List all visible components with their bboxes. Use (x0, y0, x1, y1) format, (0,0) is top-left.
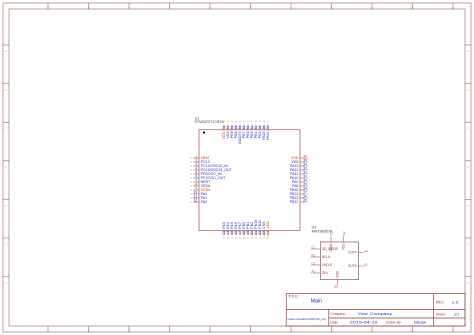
svg-text:40: 40 (254, 126, 258, 130)
svg-text:1.0: 1.0 (452, 300, 460, 305)
svg-text:10: 10 (193, 190, 197, 194)
svg-text:PA15: PA15 (262, 131, 266, 140)
svg-text:PA14: PA14 (266, 131, 270, 140)
svg-text:25: 25 (303, 198, 307, 202)
svg-text:OUTP: OUTP (348, 251, 357, 255)
svg-text:VSS: VSS (262, 221, 266, 229)
svg-text:22: 22 (258, 231, 262, 235)
svg-text:PA7: PA7 (238, 222, 242, 229)
svg-text:20: 20 (250, 231, 254, 235)
svg-text:2019-04-19: 2019-04-19 (350, 319, 379, 324)
svg-text:1: 1 (195, 154, 197, 158)
svg-text:13: 13 (222, 231, 226, 235)
svg-text:11: 11 (194, 194, 198, 198)
svg-text:9: 9 (195, 186, 197, 190)
svg-text:PB5: PB5 (250, 131, 254, 138)
svg-text:35: 35 (303, 158, 307, 162)
svg-text:1/1: 1/1 (454, 312, 460, 317)
svg-text:6: 6 (195, 174, 197, 178)
svg-text:43: 43 (242, 126, 246, 130)
svg-text:PA1: PA1 (201, 196, 208, 200)
svg-text:2: 2 (195, 158, 197, 162)
svg-text:32: 32 (303, 170, 307, 174)
svg-text:46: 46 (230, 126, 234, 130)
svg-text:PF1/OSC_OUT: PF1/OSC_OUT (201, 176, 227, 180)
svg-text:PC14/OSC32_IN: PC14/OSC32_IN (201, 164, 229, 168)
svg-text:BOOT0: BOOT0 (238, 131, 242, 143)
svg-text:7: 7 (195, 178, 197, 182)
svg-text:PA5: PA5 (230, 222, 234, 229)
svg-text:47: 47 (226, 126, 230, 130)
svg-text:PA6: PA6 (234, 222, 238, 229)
svg-text:PF0/OSC_IN: PF0/OSC_IN (201, 172, 222, 176)
svg-text:19: 19 (246, 231, 250, 235)
svg-text:37: 37 (266, 126, 270, 130)
svg-text:14: 14 (226, 231, 230, 235)
svg-text:24: 24 (266, 231, 270, 235)
svg-text:45: 45 (234, 126, 238, 130)
svg-text:VDD: VDD (342, 243, 346, 250)
svg-text:12: 12 (193, 198, 197, 202)
svg-text:23: 23 (262, 231, 266, 235)
svg-text:4: 4 (195, 166, 197, 170)
svg-text:G: G (5, 283, 7, 285)
svg-text:44: 44 (238, 126, 242, 130)
svg-text:TITLE:: TITLE: (288, 295, 299, 299)
svg-text:PB8: PB8 (234, 131, 238, 138)
svg-text:LRCLK: LRCLK (322, 263, 333, 267)
svg-text:5: 5 (195, 170, 197, 174)
svg-text:VDD: VDD (291, 156, 299, 160)
svg-text:21: 21 (254, 231, 258, 235)
svg-text:16: 16 (234, 231, 238, 235)
svg-text:28: 28 (303, 186, 307, 190)
svg-text:31: 31 (303, 174, 307, 178)
svg-text:OUTN: OUTN (348, 264, 358, 268)
svg-text:PB11: PB11 (258, 220, 262, 229)
svg-text:PA9: PA9 (292, 180, 299, 184)
svg-text:PA8: PA8 (292, 184, 299, 188)
svg-text:STM32F071CBT6: STM32F071CBT6 (194, 120, 223, 124)
svg-text:REV:: REV: (436, 301, 444, 305)
svg-text:PC13: PC13 (201, 160, 210, 164)
svg-text:3: 3 (195, 162, 197, 166)
svg-text:GAIN: GAIN (329, 243, 333, 251)
svg-text:41: 41 (250, 126, 254, 130)
svg-text:Company:: Company: (330, 312, 346, 316)
svg-text:Drawn By:: Drawn By: (386, 320, 402, 324)
svg-text:18: 18 (242, 231, 246, 235)
svg-text:PA12: PA12 (290, 168, 299, 172)
svg-text:PA4: PA4 (226, 222, 230, 229)
svg-text:27: 27 (303, 190, 307, 194)
svg-text:26: 26 (303, 194, 307, 198)
svg-text:42: 42 (246, 126, 250, 130)
svg-text:Date:: Date: (330, 320, 338, 324)
svg-text:PB13: PB13 (290, 196, 299, 200)
svg-text:PB15: PB15 (290, 188, 299, 192)
svg-text:PB7: PB7 (242, 131, 246, 138)
svg-text:NRST: NRST (201, 180, 212, 184)
svg-text:Steak: Steak (414, 319, 426, 324)
svg-text:33: 33 (303, 166, 307, 170)
svg-text:38: 38 (262, 126, 266, 130)
svg-text:PA3: PA3 (222, 222, 226, 229)
svg-text:Your Company: Your Company (358, 311, 392, 316)
svg-text:VSS: VSS (226, 131, 230, 139)
svg-text:PA13: PA13 (290, 164, 299, 168)
svg-text:PA10: PA10 (290, 176, 299, 180)
svg-text:15: 15 (230, 231, 234, 235)
svg-text:Sheet:: Sheet: (436, 313, 446, 317)
svg-text:PB1: PB1 (246, 222, 250, 229)
svg-text:PB9: PB9 (230, 131, 234, 138)
svg-text:lceda.cn/steak/stm32f071cb_pro: lceda.cn/steak/stm32f071cb_proj (288, 317, 326, 321)
svg-text:PA0: PA0 (201, 192, 208, 196)
svg-text:PB3: PB3 (258, 131, 262, 138)
svg-text:VBAT: VBAT (201, 156, 211, 160)
svg-text:VDD: VDD (222, 131, 226, 139)
svg-text:29: 29 (303, 182, 307, 186)
svg-text:MAX98357A: MAX98357A (312, 229, 333, 233)
svg-text:PC15/OSC32_OUT: PC15/OSC32_OUT (201, 168, 233, 172)
svg-text:Main: Main (311, 299, 322, 305)
svg-text:PA2: PA2 (201, 200, 208, 204)
svg-text:30: 30 (303, 178, 307, 182)
svg-text:PB6: PB6 (246, 131, 250, 138)
svg-text:VDDA: VDDA (201, 188, 212, 192)
svg-text:U3: U3 (312, 225, 317, 229)
svg-text:VSSA: VSSA (201, 184, 211, 188)
svg-text:PA11: PA11 (290, 172, 298, 176)
svg-text:8: 8 (195, 182, 197, 186)
svg-text:PB14: PB14 (290, 192, 299, 196)
svg-text:17: 17 (238, 231, 242, 235)
svg-text:PB12: PB12 (290, 200, 299, 204)
svg-text:PB10: PB10 (254, 220, 258, 229)
svg-text:VSS: VSS (291, 160, 299, 164)
svg-text:BCLK: BCLK (322, 255, 331, 259)
svg-text:34: 34 (303, 162, 307, 166)
svg-text:36: 36 (303, 154, 307, 158)
svg-text:PB0: PB0 (242, 222, 246, 229)
svg-text:48: 48 (222, 126, 226, 130)
svg-text:G: G (467, 283, 469, 285)
svg-text:PB4: PB4 (254, 131, 258, 138)
svg-text:VDD: VDD (266, 221, 270, 229)
svg-text:DIN: DIN (322, 271, 328, 275)
svg-text:PB2: PB2 (250, 222, 254, 229)
svg-text:GND: GND (336, 270, 340, 278)
svg-text:39: 39 (258, 126, 262, 130)
